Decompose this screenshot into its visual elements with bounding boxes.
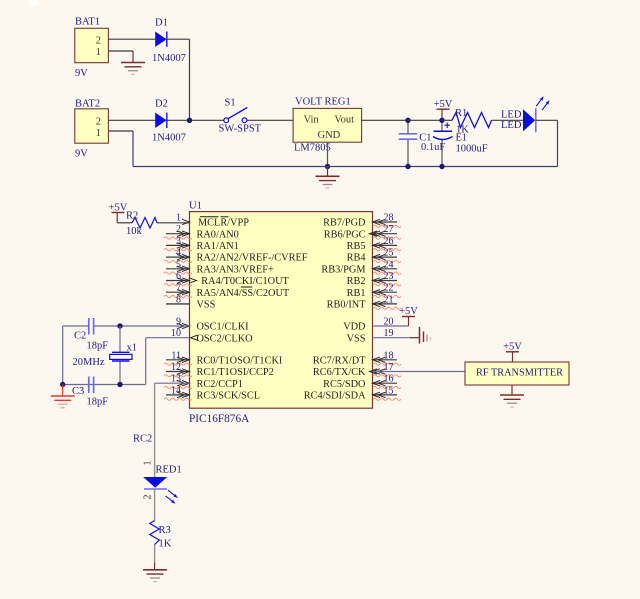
svg-text:10k: 10k — [126, 226, 143, 237]
wire BAT2 pin1 down to ground rail — [108, 131, 133, 167]
svg-text:+5V: +5V — [434, 99, 453, 110]
U1 pin 9 OSC1/CLKI — [176, 317, 249, 333]
ground below oscillator — [51, 385, 75, 408]
svg-text:7: 7 — [176, 283, 181, 294]
svg-text:PIC16F876A: PIC16F876A — [189, 413, 250, 425]
ground below RF transmitter — [500, 385, 524, 407]
svg-text:RB2: RB2 — [347, 276, 366, 287]
svg-text:RF TRANSMITTER: RF TRANSMITTER — [476, 368, 563, 379]
svg-text:3: 3 — [176, 236, 181, 247]
svg-text:18pF: 18pF — [87, 341, 109, 352]
power +5V at RF transmitter — [503, 342, 522, 363]
ground rail — [133, 166, 558, 168]
U1 pin 22 RB1 — [347, 283, 401, 299]
diode D1 — [152, 18, 186, 65]
U1 pin 16 RC5/SDO — [323, 374, 401, 390]
capacitor C3 — [72, 377, 108, 408]
svg-text:U1: U1 — [189, 201, 202, 212]
MCU U1 body — [189, 201, 373, 409]
U1 pin 19 VSS — [347, 328, 394, 344]
wire RED1 to R3 — [154, 489, 156, 521]
U1 pin 20 VDD — [343, 317, 393, 333]
U1 pin 11 RC0/T1OSO/T1CKI — [164, 350, 283, 366]
wire R1 to LED1 — [492, 119, 524, 121]
svg-text:C2: C2 — [74, 331, 86, 342]
svg-text:RB5: RB5 — [347, 241, 366, 252]
svg-text:9V: 9V — [75, 149, 88, 160]
svg-text:RC4/SDI/SDA: RC4/SDI/SDA — [304, 391, 366, 402]
resistor R2 — [117, 211, 157, 238]
U1 pin 8 VSS — [166, 294, 216, 310]
U1 pin 24 RB3/PGM — [321, 259, 401, 275]
svg-text:28: 28 — [384, 213, 394, 224]
svg-text:18pF: 18pF — [87, 397, 109, 408]
U1 pin 3 RA1/AN1 — [164, 236, 239, 252]
ground near BAT1 — [121, 63, 145, 75]
svg-text:RB4: RB4 — [347, 253, 366, 264]
svg-text:20MHz: 20MHz — [73, 357, 105, 368]
svg-text:2: 2 — [96, 116, 101, 127]
U1 pin 7 RA5/AN4/SS/C2OUT — [164, 283, 290, 299]
svg-text:BAT2: BAT2 — [75, 99, 100, 110]
svg-text:RC0/T1OSO/T1CKI: RC0/T1OSO/T1CKI — [197, 355, 283, 366]
wire D2 cathode to switch S1 — [167, 119, 224, 121]
svg-text:RA0/AN0: RA0/AN0 — [197, 229, 239, 240]
wire BAT2 pin2 to D2 anode — [108, 119, 155, 121]
junction regulator GND on rail — [325, 164, 330, 169]
svg-text:Vin: Vin — [304, 115, 320, 126]
svg-text:OSC1/CLKI: OSC1/CLKI — [197, 322, 250, 333]
svg-text:5: 5 — [176, 259, 181, 270]
svg-text:1K: 1K — [159, 539, 172, 550]
MCU part number label — [189, 413, 250, 425]
svg-text:1N4007: 1N4007 — [152, 133, 186, 144]
svg-text:16: 16 — [384, 374, 394, 385]
svg-text:24: 24 — [384, 259, 394, 270]
capacitor C1 — [399, 120, 446, 166]
junction E1 top — [439, 118, 444, 123]
svg-text:15: 15 — [384, 385, 394, 396]
U1 pin 2 RA0/AN0 — [164, 224, 239, 240]
svg-text:1: 1 — [143, 461, 154, 466]
svg-text:VOLT REG1: VOLT REG1 — [295, 97, 351, 108]
svg-text:1: 1 — [96, 128, 101, 139]
svg-text:VSS: VSS — [347, 333, 366, 344]
svg-text:6: 6 — [176, 271, 181, 282]
diode D2 — [152, 99, 186, 144]
svg-text:RA1/AN1: RA1/AN1 — [197, 241, 239, 252]
svg-text:R2: R2 — [126, 211, 138, 222]
svg-text:OSC2/CLKO: OSC2/CLKO — [197, 333, 254, 344]
U1 pin 1 MCLR/VPP — [176, 213, 249, 229]
ground below regulator — [316, 167, 340, 189]
wire BAT1 pin1 to ground — [108, 51, 133, 62]
svg-text:26: 26 — [384, 236, 394, 247]
svg-text:SW-SPST: SW-SPST — [219, 124, 262, 135]
U1 pin 26 RB5 — [347, 236, 401, 252]
U1 pin 15 RC4/SDI/SDA — [304, 385, 401, 401]
svg-text:S1: S1 — [225, 98, 236, 109]
U1 pin 27 RB6/PGC — [324, 224, 401, 240]
wire C2 to left rail — [63, 325, 89, 327]
junction crystal bottom — [117, 382, 122, 387]
U1 pin 23 RB2 — [347, 271, 401, 287]
svg-text:RED1: RED1 — [156, 465, 182, 476]
U1 pin 14 RC3/SCK/SCL — [164, 385, 260, 401]
junction node diodes — [187, 118, 192, 123]
svg-text:RC6/TX/CK: RC6/TX/CK — [313, 367, 366, 378]
svg-text:x1: x1 — [127, 343, 138, 354]
svg-text:RB0/INT: RB0/INT — [327, 300, 367, 311]
wire C1 to E1 — [408, 119, 442, 121]
svg-text:4: 4 — [176, 248, 181, 259]
svg-text:R1: R1 — [455, 108, 467, 119]
svg-text:22: 22 — [384, 283, 394, 294]
crystal x1 — [73, 326, 138, 385]
svg-text:9V: 9V — [75, 68, 88, 79]
svg-text:RC3/SCK/SCL: RC3/SCK/SCL — [197, 391, 261, 402]
LED RED1 — [143, 461, 182, 504]
U1 pin 17 RC6/TX/CK — [313, 362, 401, 378]
svg-text:2: 2 — [143, 495, 154, 500]
U1 pin 25 RB4 — [347, 248, 401, 264]
svg-text:VSS: VSS — [197, 300, 216, 311]
wire D1 cathode to node A — [167, 39, 190, 120]
svg-text:1000uF: 1000uF — [456, 144, 488, 155]
svg-text:D2: D2 — [155, 99, 168, 110]
net label RC2 — [133, 434, 152, 445]
U1 pin 6 RA4/T0CKI/C1OUT — [164, 271, 290, 287]
svg-text:RA4/T0CKI/C1OUT: RA4/T0CKI/C1OUT — [201, 276, 289, 287]
svg-text:2: 2 — [176, 224, 181, 235]
capacitor E1 — [433, 120, 488, 166]
U1 pin 4 RA2/AN2/VREF-/CVREF — [164, 248, 308, 264]
svg-text:1: 1 — [96, 47, 101, 58]
svg-text:RC2/CCP1: RC2/CCP1 — [197, 379, 243, 390]
wire regulator GND pin down — [327, 142, 329, 166]
svg-text:RC2: RC2 — [133, 434, 152, 445]
switch S1 — [219, 98, 262, 135]
battery BAT1 — [75, 17, 109, 80]
power +5V at E1 — [434, 99, 453, 120]
junction E1 bottom — [439, 164, 444, 169]
svg-text:RB3/PGM: RB3/PGM — [321, 264, 365, 275]
svg-text:+5V: +5V — [399, 306, 418, 317]
svg-text:LED1: LED1 — [501, 120, 527, 131]
resistor R1 — [442, 108, 492, 136]
U1 pin 13 RC2/CCP1 — [164, 374, 243, 390]
svg-text:2: 2 — [96, 35, 101, 46]
svg-text:RA2/AN2/VREF-/CVREF: RA2/AN2/VREF-/CVREF — [197, 253, 308, 264]
svg-text:RC7/RX/DT: RC7/RX/DT — [313, 355, 366, 366]
junction C1 bottom — [405, 164, 410, 169]
svg-text:23: 23 — [384, 271, 394, 282]
svg-text:+5V: +5V — [503, 342, 522, 353]
svg-text:BAT1: BAT1 — [75, 17, 100, 28]
wire VSS pin 19 to ground — [373, 337, 420, 339]
svg-text:RA3/AN3/VREF+: RA3/AN3/VREF+ — [197, 264, 275, 275]
wire R2 to U1 pin 1 — [157, 222, 190, 224]
ground below R3 — [143, 570, 167, 582]
wire LED1 cathode to rail — [536, 120, 558, 166]
svg-text:LED1: LED1 — [501, 110, 527, 121]
svg-text:25: 25 — [384, 248, 394, 259]
svg-text:1N4007: 1N4007 — [152, 53, 186, 64]
junction crystal top — [117, 323, 122, 328]
svg-text:18: 18 — [384, 350, 394, 361]
svg-text:27: 27 — [384, 224, 394, 235]
U1 pin 5 RA3/AN3/VREF+ — [164, 259, 274, 275]
svg-text:RA5/AN4/SS/C2OUT: RA5/AN4/SS/C2OUT — [197, 288, 290, 299]
junction osc ground — [60, 382, 65, 387]
U1 pin 21 RB0/INT — [327, 294, 401, 310]
wire U1 pin 17 to RF transmitter — [373, 371, 466, 373]
svg-text:RB7/PGD: RB7/PGD — [323, 218, 366, 229]
U1 pin 28 RB7/PGD — [323, 213, 401, 229]
svg-text:D1: D1 — [155, 18, 168, 29]
wire U1 pin 9 to C2 — [94, 325, 190, 327]
resistor R3 — [150, 521, 172, 550]
wire BAT1 pin2 to D1 anode — [108, 38, 155, 40]
voltage regulator VREG1 — [293, 97, 362, 154]
battery BAT2 — [75, 99, 109, 160]
power +5V at R2 — [109, 203, 128, 223]
svg-text:GND: GND — [318, 130, 341, 141]
wire U1 pin 13 to RED1 — [155, 383, 190, 477]
wire S1 to regulator Vin — [247, 119, 293, 121]
junction C1 top — [405, 118, 410, 123]
U1 pin 18 RC7/RX/DT — [313, 350, 401, 366]
svg-text:1: 1 — [176, 213, 181, 224]
svg-text:RC1/T1OSI/CCP2: RC1/T1OSI/CCP2 — [197, 367, 274, 378]
U1 pin 10 OSC2/CLKO — [171, 328, 253, 344]
svg-text:21: 21 — [384, 294, 394, 305]
wire R3 to ground — [154, 545, 156, 570]
power +5V at VDD pin 20 — [373, 306, 419, 326]
U1 pin 12 RC1/T1OSI/CCP2 — [164, 362, 274, 378]
svg-text:RB6/PGC: RB6/PGC — [324, 229, 366, 240]
wire osc bottom — [63, 384, 146, 386]
RF transmitter module — [465, 362, 569, 385]
ground at VSS pin 19 (rotated) — [420, 327, 431, 344]
svg-text:12: 12 — [171, 362, 181, 373]
svg-text:MCLR/VPP: MCLR/VPP — [198, 218, 249, 229]
wire osc left vertical — [62, 326, 64, 385]
wire U1 pin 10 to crystal — [146, 338, 190, 385]
svg-text:VDD: VDD — [343, 322, 366, 333]
svg-text:Vout: Vout — [334, 115, 354, 126]
svg-text:RC5/SDO: RC5/SDO — [323, 379, 366, 390]
svg-text:11: 11 — [171, 350, 181, 361]
svg-text:14: 14 — [171, 385, 181, 396]
svg-text:R3: R3 — [159, 525, 171, 536]
LED LED1 — [501, 96, 550, 132]
svg-text:8: 8 — [176, 294, 181, 305]
svg-text:LM7805: LM7805 — [294, 143, 331, 154]
wire regulator Vout to C1 — [362, 119, 408, 121]
svg-text:RB1: RB1 — [347, 288, 366, 299]
svg-text:1K: 1K — [456, 125, 469, 136]
capacitor C2 — [74, 318, 108, 352]
